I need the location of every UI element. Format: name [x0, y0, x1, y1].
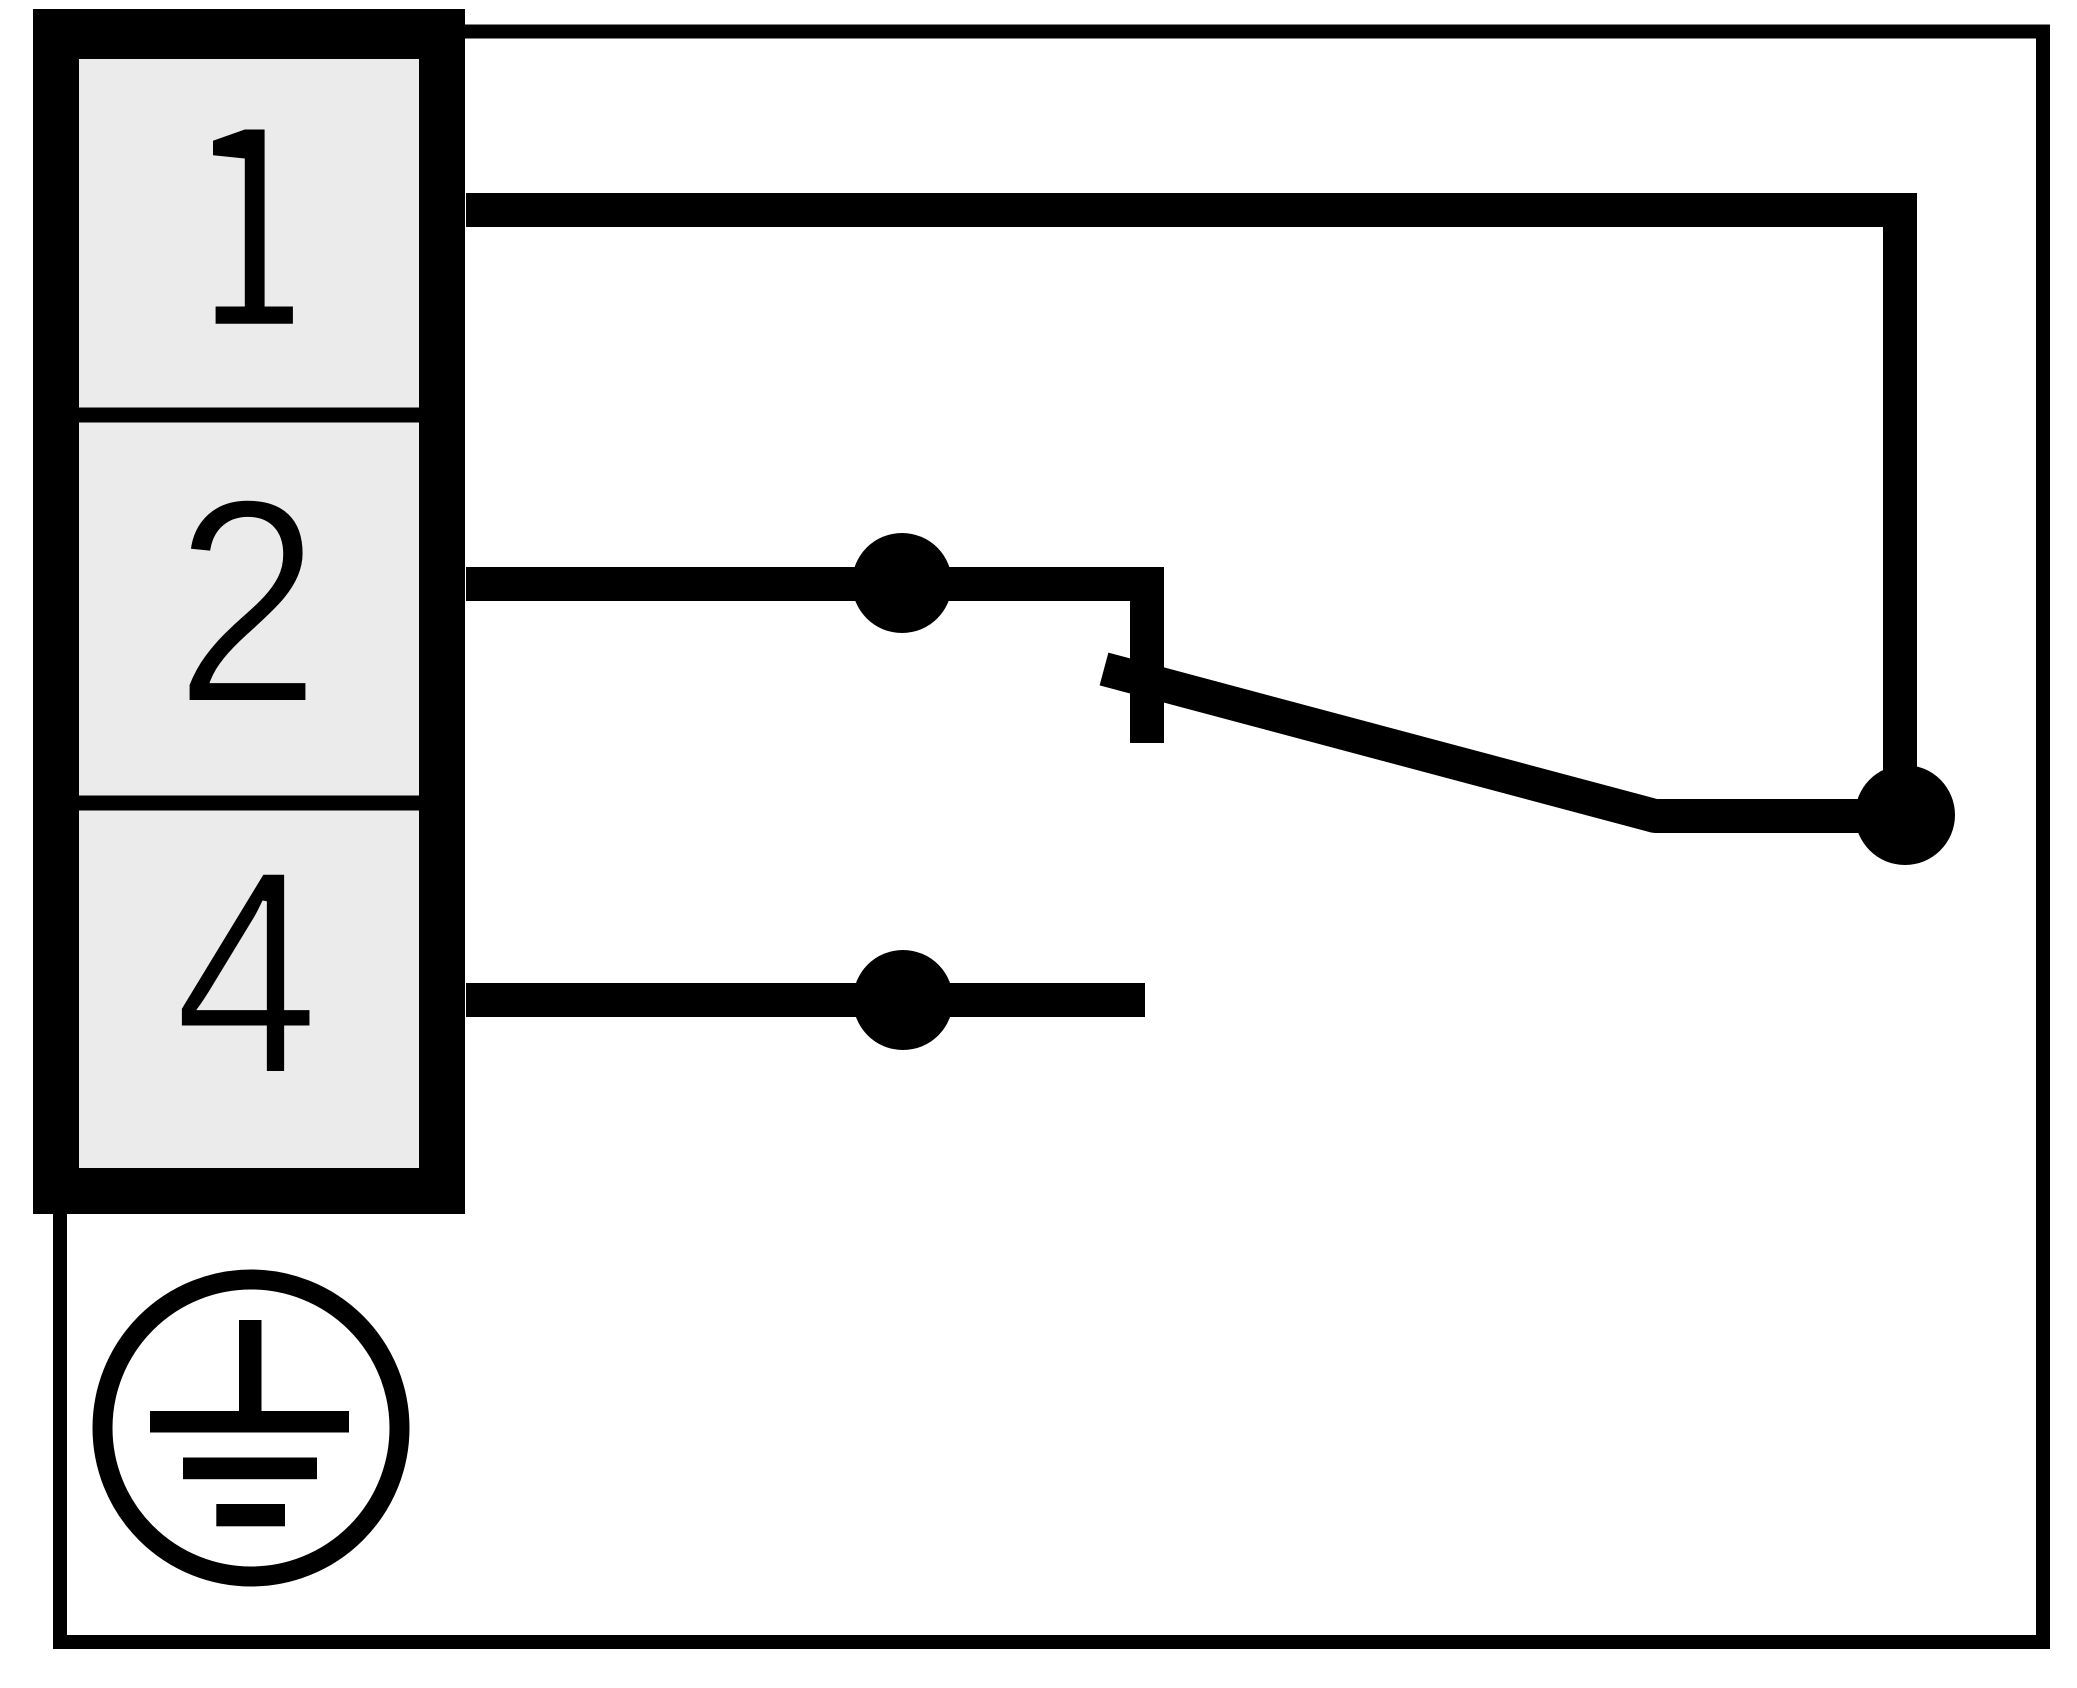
terminal cell 1 — [79, 59, 419, 408]
wire pin2 to fixed contact — [466, 584, 1147, 743]
wire pin1 to switch common node — [466, 210, 1900, 815]
junction dot node A (switch pivot) — [1855, 765, 1955, 865]
terminal cell 2 — [79, 423, 419, 796]
earth bar short — [216, 1504, 285, 1526]
earth stem — [239, 1320, 262, 1415]
svg-text:4: 4 — [174, 809, 320, 1136]
connector terminal block body — [33, 9, 465, 1214]
switch arm (moving contact) — [1104, 669, 1903, 816]
svg-text:2: 2 — [174, 439, 321, 765]
node dot on wire 4 — [853, 950, 953, 1050]
wire pin4 (open contact) — [466, 983, 1145, 1017]
protective earth symbol: circle — [103, 1280, 400, 1577]
terminal cell 4 — [79, 811, 419, 1169]
pin label 1 — [213, 130, 293, 324]
node dot on wire 2 — [852, 533, 952, 633]
earth bar middle — [183, 1458, 317, 1480]
earth bar long — [150, 1411, 349, 1433]
